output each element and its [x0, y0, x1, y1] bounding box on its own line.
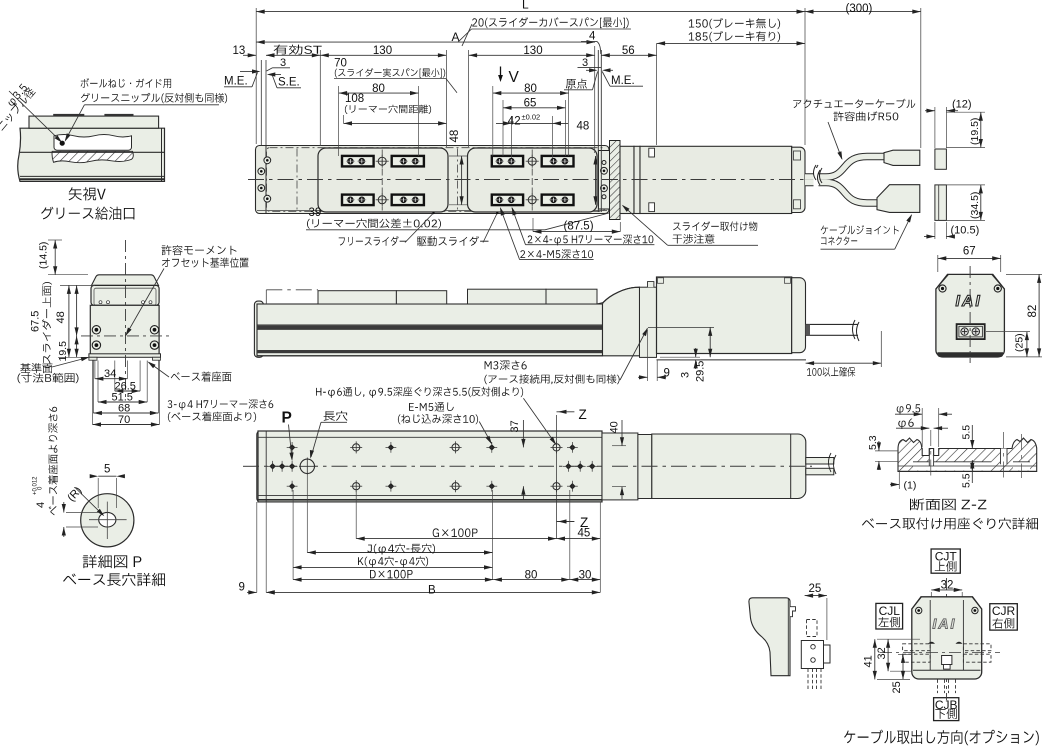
svg-text:4: 4	[35, 502, 47, 508]
svg-text:67: 67	[963, 246, 976, 258]
svg-text:M.E.: M.E.	[224, 76, 248, 88]
svg-text:CJR: CJR	[992, 604, 1016, 618]
svg-text:65: 65	[524, 98, 537, 110]
svg-text:68: 68	[118, 402, 130, 414]
svg-text:9: 9	[664, 368, 670, 380]
svg-text:9: 9	[239, 582, 245, 594]
svg-text:(14.5): (14.5)	[38, 242, 50, 269]
svg-text:108: 108	[345, 93, 364, 105]
svg-text:3: 3	[680, 372, 692, 378]
svg-text:(12): (12)	[952, 99, 972, 111]
svg-text:5.5: 5.5	[960, 425, 972, 440]
svg-text:37: 37	[509, 420, 521, 432]
svg-text:Z: Z	[579, 407, 587, 422]
svg-text:19.5: 19.5	[57, 341, 69, 362]
svg-text:5.5: 5.5	[960, 473, 972, 488]
svg-text:34: 34	[104, 368, 116, 380]
svg-text:56: 56	[622, 45, 635, 57]
svg-text:5.3: 5.3	[867, 435, 879, 450]
svg-text:M.E.: M.E.	[611, 75, 635, 87]
svg-text:130: 130	[523, 45, 542, 57]
svg-text:130: 130	[373, 45, 392, 57]
svg-text:CJL: CJL	[879, 604, 901, 618]
svg-text:48: 48	[449, 130, 461, 143]
svg-text:41: 41	[862, 655, 874, 667]
svg-text:(34.5): (34.5)	[969, 192, 981, 219]
svg-text:(19.5): (19.5)	[969, 118, 981, 145]
svg-text:L: L	[522, 0, 529, 12]
svg-text:80: 80	[372, 83, 385, 95]
svg-text:67.5: 67.5	[30, 311, 42, 332]
svg-text:25: 25	[891, 681, 903, 693]
svg-text:70: 70	[334, 57, 347, 69]
svg-text:(25): (25)	[1014, 333, 1026, 352]
svg-text:30: 30	[579, 569, 592, 581]
svg-text:39: 39	[309, 207, 322, 219]
svg-text:(87.5): (87.5)	[563, 220, 593, 232]
svg-text:CJT: CJT	[935, 550, 958, 564]
svg-text:4: 4	[589, 31, 596, 43]
svg-text:48: 48	[577, 121, 590, 133]
svg-text:29.5: 29.5	[695, 361, 707, 382]
svg-text:(300): (300)	[846, 3, 873, 15]
svg-text:B: B	[428, 585, 436, 597]
svg-text:40: 40	[609, 421, 621, 433]
svg-text:80: 80	[525, 569, 538, 581]
svg-text:+0.012: +0.012	[33, 476, 39, 495]
svg-text:5: 5	[104, 464, 110, 476]
svg-text:13: 13	[233, 45, 246, 57]
svg-text:S.E.: S.E.	[278, 77, 300, 89]
svg-text:CJB: CJB	[935, 698, 958, 712]
svg-text:25: 25	[809, 583, 822, 595]
svg-text:70: 70	[118, 414, 130, 426]
svg-text:(1): (1)	[904, 480, 917, 492]
svg-text:3: 3	[280, 57, 286, 69]
svg-text:32: 32	[941, 580, 954, 592]
svg-text:32: 32	[876, 647, 888, 659]
svg-text:82: 82	[1027, 305, 1039, 318]
svg-text:P: P	[282, 410, 292, 427]
svg-text:80: 80	[524, 83, 537, 95]
svg-text:±0.02: ±0.02	[522, 113, 541, 122]
svg-text:48: 48	[55, 311, 67, 323]
svg-text:V: V	[509, 69, 520, 86]
svg-text:42: 42	[508, 116, 521, 128]
svg-text:45: 45	[578, 528, 591, 540]
